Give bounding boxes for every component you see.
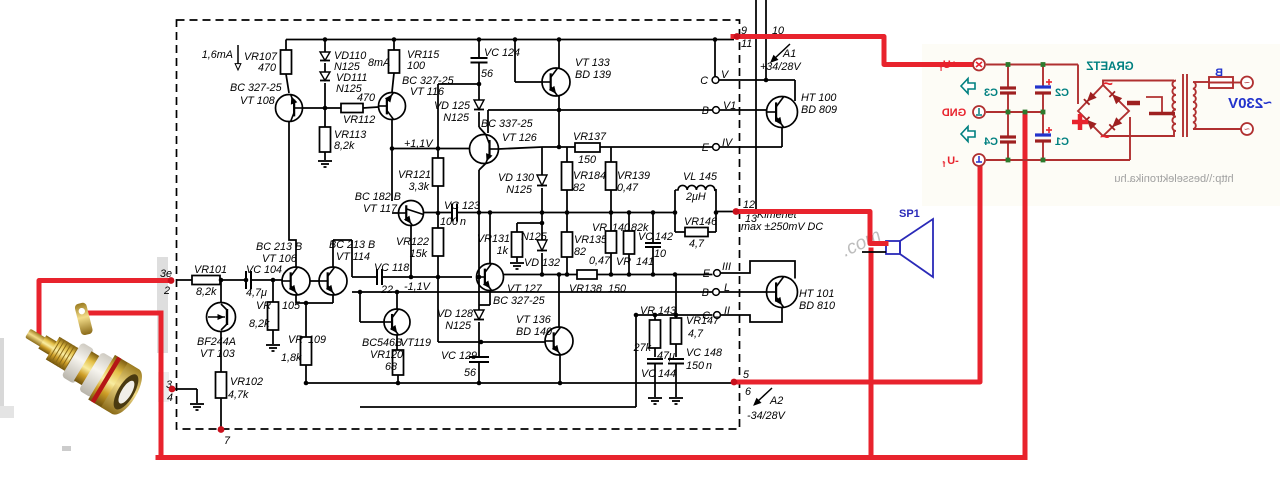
- svg-text:-U: -U: [947, 155, 959, 167]
- svg-text:8,2k: 8,2k: [249, 318, 270, 330]
- svg-text:VR131: VR131: [477, 233, 510, 245]
- svg-text:~230V: ~230V: [1228, 95, 1272, 112]
- svg-text:max ±250mV DC: max ±250mV DC: [741, 221, 823, 233]
- svg-text:B: B: [1215, 67, 1223, 79]
- svg-text:N125: N125: [443, 112, 470, 124]
- svg-text:0,47: 0,47: [617, 182, 639, 194]
- svg-text:E: E: [702, 142, 710, 154]
- svg-text:BD 140: BD 140: [516, 326, 552, 338]
- svg-text:100: 100: [440, 216, 458, 228]
- svg-text:BC 337-25: BC 337-25: [481, 118, 534, 130]
- svg-text:VT 136: VT 136: [516, 314, 551, 326]
- svg-text:HT 101: HT 101: [799, 288, 834, 300]
- svg-text:f: f: [942, 160, 945, 169]
- svg-text:VT 108: VT 108: [240, 95, 275, 107]
- svg-text:C2: C2: [1055, 87, 1069, 99]
- svg-text:~: ~: [1244, 125, 1250, 136]
- svg-text:VT 117: VT 117: [363, 203, 398, 215]
- svg-text:VR135: VR135: [574, 234, 608, 246]
- svg-text:8mA: 8mA: [368, 57, 390, 69]
- svg-text:BC 327-25: BC 327-25: [493, 295, 546, 307]
- svg-text:22: 22: [380, 284, 393, 296]
- svg-text:VT 126: VT 126: [502, 132, 537, 144]
- svg-text:4,7k: 4,7k: [228, 389, 249, 401]
- svg-text:56: 56: [481, 68, 493, 80]
- svg-text:N125: N125: [445, 320, 472, 332]
- svg-text:VD 132: VD 132: [524, 257, 560, 269]
- svg-text:150: 150: [578, 154, 596, 166]
- svg-text:BD 809: BD 809: [801, 104, 837, 116]
- svg-text:VT 106: VT 106: [262, 253, 297, 265]
- svg-text:C3: C3: [984, 87, 998, 99]
- svg-text:VR: VR: [592, 222, 607, 234]
- svg-text:C: C: [702, 310, 710, 322]
- svg-text:7: 7: [224, 435, 231, 447]
- svg-text:V1: V1: [723, 100, 736, 112]
- svg-text:~: ~: [1100, 127, 1110, 146]
- svg-text:SP1: SP1: [899, 208, 920, 220]
- svg-text:105: 105: [282, 300, 301, 312]
- svg-text:VT 114: VT 114: [336, 251, 370, 263]
- svg-text:C4: C4: [983, 136, 998, 148]
- svg-text:47μ: 47μ: [657, 350, 675, 362]
- svg-text:+U: +U: [943, 59, 957, 71]
- svg-text:VL 145: VL 145: [683, 171, 718, 183]
- svg-text:VR184: VR184: [573, 170, 606, 182]
- svg-text:HT 100: HT 100: [801, 92, 836, 104]
- svg-text:VD 130: VD 130: [498, 172, 534, 184]
- svg-text:1,8k: 1,8k: [281, 352, 302, 364]
- svg-text:VT 127: VT 127: [507, 283, 543, 295]
- svg-text:4,7μ: 4,7μ: [246, 287, 267, 299]
- svg-text:N125: N125: [506, 184, 533, 196]
- svg-text:VC 118: VC 118: [374, 262, 409, 274]
- svg-text:http:\\besselektronika.hu: http:\\besselektronika.hu: [1114, 173, 1233, 185]
- svg-text:A2: A2: [769, 395, 783, 407]
- svg-text:123: 123: [462, 200, 480, 212]
- svg-text:VR121: VR121: [398, 169, 431, 181]
- svg-text:f: f: [939, 64, 942, 73]
- svg-text:VR: VR: [616, 256, 631, 268]
- svg-text:BD 810: BD 810: [799, 300, 835, 312]
- svg-text:III: III: [722, 261, 731, 273]
- svg-text:BD 139: BD 139: [575, 69, 611, 81]
- svg-text:150: 150: [686, 360, 704, 372]
- svg-text:N125: N125: [521, 231, 548, 243]
- svg-text:VC: VC: [444, 200, 459, 212]
- svg-text:6: 6: [745, 386, 751, 398]
- svg-text:VT 116: VT 116: [410, 86, 444, 98]
- svg-text:11: 11: [741, 38, 752, 50]
- svg-text:109: 109: [308, 334, 326, 346]
- svg-text:VR112: VR112: [343, 114, 375, 126]
- svg-text:4: 4: [167, 392, 173, 404]
- svg-text:8,2k: 8,2k: [196, 286, 217, 298]
- svg-text:VR101: VR101: [194, 264, 227, 276]
- svg-text:0,47: 0,47: [589, 255, 611, 267]
- svg-text:C1: C1: [1055, 136, 1069, 148]
- svg-text:-34/28V: -34/28V: [747, 410, 787, 422]
- svg-text:VR122: VR122: [396, 236, 429, 248]
- svg-text:VD 128: VD 128: [437, 308, 473, 320]
- svg-text:470: 470: [258, 62, 276, 74]
- svg-text:A1: A1: [782, 48, 796, 60]
- svg-text:BC 182 B: BC 182 B: [355, 191, 401, 203]
- svg-text:VC: VC: [641, 368, 656, 380]
- svg-text:1,6mA: 1,6mA: [202, 49, 233, 61]
- svg-text:3,3k: 3,3k: [409, 181, 430, 193]
- svg-text:8,2k: 8,2k: [334, 140, 355, 152]
- svg-text:GND: GND: [942, 107, 967, 119]
- svg-text:B: B: [702, 105, 709, 117]
- svg-text:n: n: [460, 216, 466, 228]
- svg-text:150: 150: [608, 283, 626, 295]
- svg-text:470: 470: [357, 92, 375, 104]
- svg-text:68: 68: [385, 361, 397, 373]
- svg-text:VT119: VT119: [400, 337, 431, 349]
- svg-text:56: 56: [464, 367, 476, 379]
- svg-text:100: 100: [407, 60, 425, 72]
- svg-text:BF244A: BF244A: [197, 336, 236, 348]
- svg-text:VR120: VR120: [370, 349, 403, 361]
- svg-text:VR146: VR146: [684, 216, 717, 228]
- svg-text:+34/28V: +34/28V: [760, 61, 802, 73]
- svg-text:n: n: [706, 360, 712, 372]
- svg-text:144: 144: [658, 368, 676, 380]
- svg-text:GRAETZ: GRAETZ: [1086, 61, 1133, 73]
- svg-text:IV: IV: [722, 137, 734, 149]
- svg-text:141: 141: [636, 256, 654, 268]
- svg-text:VR102: VR102: [230, 376, 263, 388]
- svg-text:1k: 1k: [497, 245, 509, 257]
- svg-text:VR 143: VR 143: [640, 305, 676, 317]
- svg-text:BC 327-25: BC 327-25: [230, 82, 283, 94]
- svg-text:VC 104: VC 104: [246, 264, 282, 276]
- svg-text:BC546B: BC546B: [362, 337, 402, 349]
- svg-text:~: ~: [1103, 74, 1113, 93]
- svg-text:142: 142: [655, 231, 673, 243]
- svg-text:VC 148: VC 148: [686, 347, 722, 359]
- svg-text:15k: 15k: [410, 248, 428, 260]
- svg-text:2: 2: [163, 285, 170, 297]
- svg-text:VR139: VR139: [617, 170, 650, 182]
- svg-text:VT 133: VT 133: [575, 57, 610, 69]
- svg-text:82: 82: [573, 182, 585, 194]
- svg-text:VR: VR: [256, 300, 271, 312]
- svg-text:82: 82: [574, 246, 586, 258]
- svg-text:~: ~: [1244, 78, 1250, 89]
- svg-text:4,7: 4,7: [689, 238, 705, 250]
- svg-text:E: E: [703, 268, 711, 280]
- svg-text:VR: VR: [288, 334, 303, 346]
- svg-text:VC 129: VC 129: [441, 350, 477, 362]
- svg-text:VR137: VR137: [573, 131, 607, 143]
- svg-text:2μH: 2μH: [685, 191, 706, 203]
- svg-text:10: 10: [654, 248, 666, 260]
- svg-text:5: 5: [743, 369, 750, 381]
- svg-text:C: C: [700, 75, 708, 87]
- svg-text:B: B: [702, 287, 709, 299]
- svg-text:4,7: 4,7: [688, 328, 704, 340]
- svg-text:VR138: VR138: [569, 283, 602, 295]
- svg-text:VC: VC: [638, 231, 653, 243]
- svg-text:27k: 27k: [633, 342, 652, 354]
- svg-text:VT 103: VT 103: [200, 348, 235, 360]
- svg-text:VD 125: VD 125: [434, 100, 471, 112]
